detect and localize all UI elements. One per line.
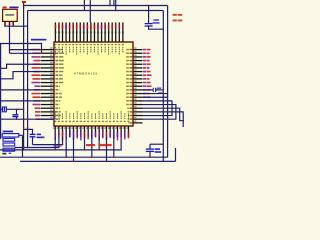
capacitor C2 value label [37, 137, 43, 139]
net label text below bottom pins [86, 144, 95, 146]
net label text top-right row2 [173, 20, 177, 22]
crystal Y2 plate box 3 [3, 143, 15, 146]
wire from bottom pin col 5 down [65, 137, 67, 157]
wire vertical from top edge B [89, 0, 91, 23]
wire vertical from top edge D [113, 0, 115, 6]
wire from bottom pin col 3 down [62, 137, 64, 145]
IC top pin net labels [55, 25, 57, 29]
junction bottom pin col 17 [113, 156, 115, 158]
vertical rail x28.2 from H2 [27, 11, 29, 148]
capacitor C2 top lead [24, 129, 33, 134]
junction at H1 start [23, 5, 25, 7]
wire J1 to rail [0, 108, 2, 110]
junction bottom pin col 7 [73, 161, 75, 163]
IC top pin numbers row [54, 44, 56, 45]
IC bottom pin numbers row [54, 121, 56, 122]
wire from bottom pin col 15 down [105, 137, 107, 161]
junction bottom pin col 2 [58, 147, 60, 149]
junction crystal wire rail x28 [27, 147, 29, 149]
wire wrap row104 to right [143, 105, 176, 120]
junction bottom pin col 15 [106, 161, 108, 163]
IC bottom pin numbers outside [53, 127, 55, 129]
wire from bottom pin col 2 down [58, 137, 60, 148]
wire from bottom pin col 11 down [91, 137, 93, 157]
junction A on H1 [84, 5, 86, 7]
capacitor C5 plate top [12, 114, 18, 116]
IC top pin name columns [55, 47, 56, 49]
capacitor C1 top plate [145, 23, 153, 25]
wire vertical right rail VR1 [167, 6, 169, 158]
capacitor C2 bottom lead [32, 137, 34, 145]
capacitor C3 inline left lead row89 [143, 89, 153, 91]
wire crystal to pin col2 LN2 [15, 147, 59, 149]
junction J1 lead on rail x24 [23, 109, 25, 111]
junction E on H2 [115, 10, 117, 12]
wire bottom bus LN3 [0, 149, 121, 151]
connector J1 inner bar [3, 108, 5, 111]
IC right pin names column [130, 49, 133, 51]
junction on pin row1 [41, 49, 43, 51]
oscillator Y1 inside text [5, 14, 14, 16]
capacitor C4 bottom plate [146, 150, 154, 152]
IC left pin numbers outside [50, 47, 52, 48]
wire bottom bus LN5 [20, 160, 176, 162]
wire vertical from top edge C [109, 0, 111, 6]
capacitor C1 bottom lead [149, 26, 164, 29]
wire from bottom pin col 19 down [120, 137, 122, 150]
IC right pin numbers outside [134, 47, 136, 48]
wire from bottom pin col 13 down [98, 137, 100, 150]
wire corner y162 up right [175, 148, 177, 161]
junction row119 on VR1 [167, 118, 169, 120]
wire to pin row 89 from edge [0, 89, 41, 91]
wire V1 corner to pin row2 [10, 52, 41, 54]
oscillator pin 3 leg [12, 21, 14, 26]
capacitor C5 plate bottom [12, 116, 18, 118]
wire vertical from top edge E [115, 0, 117, 11]
capacitor C4 bottom lead [149, 151, 151, 157]
wire vertical right rail VR2 [162, 11, 164, 162]
capacitor C2 bottom plate [30, 136, 36, 138]
junction bottom pin col 13 [98, 149, 100, 151]
wire from oscillator legs to VCC rail [4, 25, 27, 27]
VCC power bar symbol [22, 1, 26, 3]
junction C3 on VR2 [163, 89, 165, 91]
junction C2 top on rail x24 [23, 129, 25, 131]
crystal Y2 bottom label [2, 153, 6, 155]
IC right pin net labels [143, 49, 146, 51]
junction bottom pin col 19 [120, 149, 122, 151]
wire from bottom pin col 7 down [73, 137, 75, 161]
IC U1 ATMEGA body [54, 42, 133, 126]
connector J1 body left [2, 107, 6, 112]
wire from bottom pin col 9 down [84, 137, 86, 150]
capacitor C1 stem from H1 [148, 6, 150, 24]
svg-text:ATMEGA103: ATMEGA103 [74, 71, 97, 75]
junction C4 on y157 [149, 156, 151, 158]
junction V1 row1 [9, 49, 11, 51]
junction crystal wire rail x24 [23, 147, 25, 149]
capacitor C1 bottom plate [145, 25, 153, 27]
capacitor C3 curved plate [152, 88, 155, 92]
capacitor C1 designator label [153, 19, 159, 20]
IC left pin net labels [32, 49, 41, 51]
capacitor C4 designator label [155, 148, 160, 150]
junction C5 on J1 wire [16, 109, 18, 111]
IC left pins [41, 49, 55, 51]
capacitor C5 lead down [16, 109, 18, 114]
wire row1 from V1 [10, 49, 41, 51]
IC U1 designator label [31, 39, 46, 41]
junction row108 on VR2 [163, 107, 165, 109]
wire left edge vertical rail [0, 44, 2, 140]
wire to pin row 119 from edge [0, 118, 54, 120]
IC top pin numbers outside [55, 32, 57, 34]
capacitor C3 value label [158, 92, 162, 93]
junction bottom pin col 1 [54, 149, 56, 151]
junction row93 on VR2 [163, 93, 165, 95]
wire to pin row 100 from edge [0, 100, 41, 102]
VCC stem wire [23, 3, 25, 6]
wire wrap row111 to right edge [143, 112, 184, 127]
junction C1 lead on vertical rail [163, 28, 165, 30]
capacitor C4 top lead [149, 144, 151, 149]
wire VR2 to C4 top [150, 143, 163, 145]
junction C1 stem on H1 [148, 5, 150, 7]
capacitor C1 value label [153, 22, 160, 23]
junction bottom pin col 5 [65, 156, 67, 158]
wire H1 top bus [24, 5, 168, 7]
IC left pin names column [55, 49, 58, 51]
junction left rail row89 [0, 89, 1, 91]
wire H2 top bus [28, 10, 164, 12]
junction C on H1 [109, 5, 111, 7]
IC top pins [54, 22, 56, 42]
crystal Y2 plate box 1 [2, 134, 19, 137]
capacitor C2 top plate [30, 133, 36, 135]
wire vertical x22.5 crystal to y157 [22, 135, 24, 157]
junction rail x24 at LN3 [23, 149, 25, 151]
wire V1 from oscillator down [9, 26, 11, 53]
IC bottom pin name columns [55, 118, 56, 120]
oscillator Y1 value label [9, 7, 18, 9]
wire wrap row100 to right [143, 101, 173, 116]
oscillator pin 1 leg [4, 21, 6, 26]
crystal Y2 value label [3, 131, 13, 133]
capacitor C3 straight plate [155, 88, 157, 92]
junction bottom pin col 11 [91, 156, 93, 158]
wire stair to pin row 75 from edge [0, 72, 41, 79]
oscillator pin 2 leg [9, 21, 11, 26]
wire wrap row108 to right [143, 108, 185, 120]
junction C4 wire on VR2 [163, 143, 165, 145]
junction rails above crystal [23, 127, 25, 129]
junction bottom pin col 9 [84, 149, 86, 151]
wire row93 to VR1 [143, 93, 168, 95]
capacitor C3 right lead to rail [156, 89, 164, 91]
junction C5 row119 [16, 118, 18, 120]
oscillator Y1 designator label [3, 7, 7, 9]
wire J1 right lead [6, 108, 23, 110]
wire to left pin row1 from edge [0, 44, 42, 54]
junction on pin row2 [41, 53, 43, 55]
IC bottom pins [54, 126, 56, 137]
wire from bottom pin col 17 down [113, 137, 115, 157]
junction B on H2 [90, 10, 92, 12]
capacitor C3 designator label [157, 88, 162, 89]
junction rail x28 row119 [27, 118, 29, 120]
net label text top-right row1 [173, 14, 177, 16]
capacitor C4 top plate [146, 148, 154, 150]
net label mark below body corner [42, 136, 45, 138]
capacitor C2 designator label [37, 134, 41, 136]
wire vertical from top edge A [83, 0, 85, 11]
wire row97 to VR1 [143, 96, 168, 98]
wire bottom bus LN4 [0, 156, 168, 158]
crystal Y2 plate box 4 [3, 148, 15, 151]
IC right pins [133, 49, 143, 51]
wire stair to pin row 64 from edge [0, 64, 41, 68]
crystal Y2 plate box 2 [3, 138, 15, 141]
net label small below pins left [54, 145, 62, 147]
junction bottom pin col 3 [62, 144, 64, 146]
oscillator module Y1 body [3, 9, 18, 21]
capacitor C4 value label [155, 151, 161, 153]
wire bottom bus LN1 [33, 144, 63, 146]
wire from bottom pin col 1 down [54, 137, 56, 150]
IC bottom pin net labels [54, 131, 56, 140]
capacitor C5 lead to row119 [16, 117, 18, 120]
background sheet [0, 0, 184, 164]
vertical rail VCC x24 [23, 6, 25, 150]
junction osc wire / vcc rail [23, 25, 25, 27]
wire crystal box1 to vertical [19, 134, 23, 136]
